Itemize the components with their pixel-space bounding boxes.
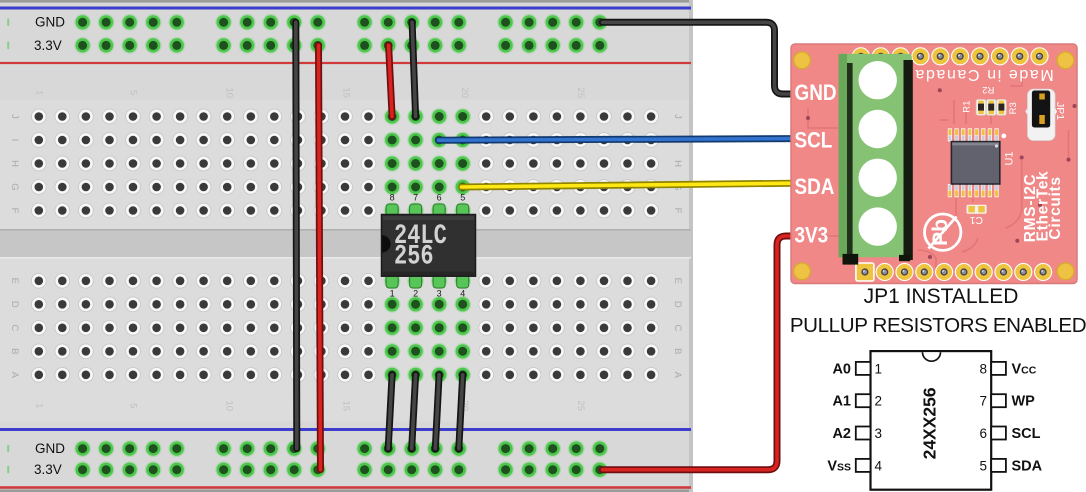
corner mounting holes (794, 52, 811, 69)
wire W6 blue SCL IC pin 6 to module SCL (439, 139, 795, 141)
wire black pin 4 (Vss) to bottom GND rail (459, 375, 463, 449)
svg-text:A0: A0 (832, 361, 851, 377)
bottom blue line (0, 428, 691, 431)
svg-text:6: 6 (979, 426, 987, 441)
svg-text:4: 4 (875, 458, 883, 473)
IC U1 pins (948, 128, 952, 141)
value label 24LC256 (394, 220, 447, 252)
wire W3 red jumper 3.3V rail to IC pin 8 (Vcc) (389, 45, 393, 116)
pin-1 notch (382, 235, 391, 252)
bottom red line (0, 486, 691, 489)
wire W7 yellow SDA IC pin 5 to module SDA (462, 183, 795, 187)
IC U1 body (951, 142, 999, 184)
wire W8 red 3V3 bottom 3.3V rail to module 3V3 (603, 236, 795, 470)
breadboard (0, 0, 693, 492)
partial rail holes at left edge (7, 18, 9, 26)
copper traces (808, 70, 1069, 268)
svg-text:WP: WP (1012, 394, 1036, 410)
IC body (871, 351, 992, 490)
logo (925, 214, 961, 250)
svg-text:3: 3 (875, 426, 883, 441)
pin boxes and numbers (856, 362, 871, 375)
wire black pin 3 (A2) to bottom GND rail (435, 375, 439, 449)
svg-text:SCL: SCL (1012, 426, 1041, 442)
wire W2 red 3.3V-rail link (top 3.3V to bottom 3.3V) (319, 45, 321, 469)
resistor R2 (986, 100, 996, 116)
svg-text:VCC: VCC (1012, 361, 1037, 377)
PCB substrate (791, 44, 1077, 284)
caption JP1 INSTALLED (791, 285, 1086, 309)
wire W1 black GND-rail link (top GND to bottom GND) (296, 22, 297, 448)
wire black pin 1 (A0) to bottom GND rail (388, 375, 392, 449)
caption PULLUP RESISTORS ENABLED (785, 314, 1086, 338)
svg-text:1: 1 (875, 361, 883, 376)
top rail separators: blue line (0, 7, 691, 10)
svg-text:SDA: SDA (1012, 458, 1043, 474)
wire W4 black jumper GND rail to IC pin 7 (WP) (412, 22, 416, 116)
svg-text:2: 2 (875, 394, 883, 409)
top red line (0, 62, 691, 64)
svg-text:VSS: VSS (827, 458, 851, 474)
vias (1020, 156, 1024, 160)
wire W5 black GND breadboard to module GND (603, 22, 795, 94)
chip body (382, 215, 476, 277)
svg-text:5: 5 (979, 458, 987, 473)
svg-text:7: 7 (979, 394, 987, 409)
svg-text:8: 8 (979, 361, 987, 376)
IC U2 24LC256 EEPROM on breadboard (382, 193, 476, 299)
pin nubs (386, 204, 398, 218)
resistor R3 (997, 100, 1007, 116)
svg-text:24XX256: 24XX256 (920, 387, 940, 459)
header pads top row (852, 47, 870, 65)
screw terminal J1 (839, 54, 913, 265)
centre channel groove (0, 229, 691, 259)
resistor R1 (976, 100, 986, 116)
pin-1 notch (top centre) (923, 352, 941, 361)
capacitor C1 (967, 205, 987, 214)
wire black pin 2 (A1) to bottom GND rail (412, 375, 416, 449)
svg-text:A1: A1 (832, 394, 851, 410)
breadboard holes (74, 14, 91, 31)
jumper JP1 (installed) (1025, 89, 1057, 140)
svg-text:A2: A2 (832, 426, 851, 442)
